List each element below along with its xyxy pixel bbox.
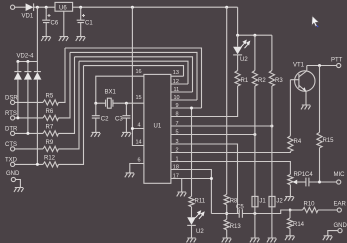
- svg-text:U6: U6: [59, 5, 67, 11]
- diode VD1: [26, 3, 34, 11]
- node junction: [270, 125, 273, 128]
- ground: [121, 132, 131, 136]
- ground: [41, 37, 51, 41]
- node junction: [318, 181, 321, 184]
- wire J1 sleeve to ground: [254, 207, 256, 238]
- node junction: [225, 6, 228, 9]
- wire: [237, 55, 239, 71]
- svg-text:14: 14: [136, 139, 142, 145]
- wire: [191, 207, 193, 218]
- ground: [250, 238, 260, 242]
- wire: [15, 101, 43, 103]
- svg-text:U2: U2: [196, 229, 204, 235]
- svg-text:4: 4: [138, 122, 141, 128]
- wire: [15, 148, 43, 150]
- node junction: [125, 102, 128, 105]
- resistor R3: [271, 35, 273, 70]
- wire: [15, 6, 26, 8]
- wire: [16, 180, 21, 188]
- svg-text:GND: GND: [6, 171, 20, 177]
- wire VCC column to pins 4 and 14: [132, 7, 144, 145]
- svg-text:VD1: VD1: [22, 14, 34, 20]
- wire pin 2 to R4 bottom: [171, 151, 291, 152]
- ground: [177, 192, 187, 196]
- ground: [59, 37, 69, 41]
- wire PTT to R15: [319, 66, 321, 133]
- wire R2 to J1: [254, 86, 256, 196]
- svg-text:PTT: PTT: [331, 57, 343, 63]
- ground: [301, 105, 311, 109]
- svg-text:6: 6: [138, 157, 141, 163]
- ground: [76, 37, 86, 41]
- svg-text:R12: R12: [44, 155, 56, 161]
- ground: [267, 238, 277, 242]
- wire bus line 1: [65, 48, 202, 108]
- svg-text:C2: C2: [101, 116, 109, 122]
- svg-text:BX1: BX1: [105, 90, 117, 96]
- ground: [323, 236, 333, 240]
- svg-text:U2: U2: [240, 57, 248, 63]
- svg-text:R5: R5: [46, 93, 54, 99]
- node junction: [36, 6, 39, 9]
- svg-text:R6: R6: [46, 109, 54, 115]
- svg-text:R13: R13: [230, 224, 242, 230]
- svg-text:R11: R11: [195, 198, 206, 204]
- svg-text:C3: C3: [115, 116, 123, 122]
- wire J2 sleeve to ground: [271, 207, 273, 238]
- wire bus line 5: [84, 66, 184, 77]
- wire VD4 to TXD: [36, 80, 38, 165]
- svg-text:J1: J1: [259, 198, 266, 204]
- wire pin 12 stub: [171, 83, 188, 85]
- wire R3 to J2: [271, 86, 273, 196]
- svg-text:R14: R14: [293, 222, 305, 228]
- wire R11 column from pin10: [191, 108, 193, 196]
- ground: [91, 132, 101, 136]
- wire GND to ground: [328, 231, 338, 236]
- wire pin 5 to J1 column: [171, 134, 255, 136]
- wire VD2 to RTS: [17, 80, 19, 118]
- wire VCC rail drop to LED branch: [237, 7, 239, 35]
- node junction: [26, 60, 29, 63]
- LED U2 receive: [187, 217, 196, 225]
- svg-text:13: 13: [173, 70, 179, 76]
- svg-text:R3: R3: [275, 78, 283, 84]
- wire DSR row to bus: [59, 48, 66, 102]
- node junction: [79, 6, 82, 9]
- svg-text:R9: R9: [46, 140, 54, 146]
- diode VD2: [14, 62, 21, 72]
- node junction: [225, 212, 228, 215]
- resistor R2: [254, 35, 256, 70]
- node junction: [16, 60, 19, 63]
- wire pin16 net: [96, 76, 144, 103]
- wire pin 13 stub: [171, 75, 184, 77]
- node junction R10 R14: [289, 209, 292, 212]
- wire pin 8 to R1: [171, 86, 238, 117]
- wire bus line 2: [70, 52, 197, 100]
- capacitor C3: [122, 103, 130, 132]
- wire R15 to mic row: [319, 148, 321, 182]
- wire bus line 3: [75, 57, 193, 92]
- svg-text:R2: R2: [258, 78, 266, 84]
- capacitor C1: [77, 7, 85, 36]
- diode VD4: [34, 62, 41, 72]
- wire pin 9 stub: [171, 107, 202, 109]
- wire R10 to EAR: [318, 209, 337, 211]
- svg-text:R7: R7: [46, 124, 54, 130]
- node junction: [36, 163, 39, 166]
- svg-text:C1: C1: [85, 21, 93, 27]
- svg-text:GND: GND: [334, 223, 347, 229]
- wire bus line 4: [79, 61, 188, 84]
- node junction: [253, 34, 256, 37]
- wire RP1 to ground: [289, 185, 291, 197]
- svg-text:C5: C5: [236, 205, 244, 211]
- node junction: [131, 127, 134, 130]
- svg-text:C6: C6: [51, 21, 59, 27]
- wire pin 17 ground stub: [181, 179, 183, 193]
- ground: [284, 197, 294, 201]
- svg-text:MIC: MIC: [334, 172, 346, 178]
- svg-text:RP1: RP1: [294, 172, 306, 178]
- svg-text:VT1: VT1: [293, 62, 305, 68]
- node junction: [318, 64, 321, 67]
- wire: [15, 132, 43, 134]
- ground: [14, 188, 24, 192]
- svg-text:C4: C4: [305, 172, 313, 178]
- svg-text:VD2-4: VD2-4: [17, 54, 35, 60]
- wire pin 3 to C5 row: [171, 144, 238, 214]
- wire pin 7 to J2 column: [171, 125, 272, 127]
- ground: [125, 173, 135, 177]
- node VCC input terminal: [11, 5, 15, 9]
- svg-text:R15: R15: [323, 138, 335, 144]
- wire: [226, 230, 228, 238]
- node junction: [16, 116, 19, 119]
- wire: [15, 117, 43, 119]
- wire pin 18: [171, 170, 212, 214]
- wire LED branch row: [238, 34, 272, 36]
- wire: [34, 6, 55, 8]
- node junction: [210, 177, 213, 180]
- svg-text:R4: R4: [294, 139, 302, 145]
- node junction: [236, 34, 239, 37]
- node junction: [94, 102, 97, 105]
- svg-text:R1: R1: [241, 78, 249, 84]
- wire: [237, 35, 239, 47]
- wire DTR row to bus: [59, 57, 75, 134]
- svg-text:U1: U1: [154, 124, 162, 130]
- node junction: [253, 212, 256, 215]
- wire RTS row to bus: [59, 52, 71, 118]
- wire pin 17: [171, 178, 212, 180]
- wire R4 column base: [289, 80, 291, 136]
- node junction: [253, 133, 256, 136]
- svg-text:R8: R8: [230, 198, 238, 204]
- regulator U6: [55, 2, 73, 11]
- LED U2 transmit: [233, 47, 242, 55]
- wire R14 to ground: [289, 229, 291, 236]
- diode VD3: [24, 62, 31, 72]
- wire pin 11 stub: [171, 91, 193, 93]
- node junction: [45, 6, 48, 9]
- wire diode anode bar: [18, 61, 38, 63]
- ground: [222, 238, 232, 242]
- wire pin 1 to RP1: [171, 162, 291, 175]
- wire: [15, 163, 43, 165]
- node junction: [190, 107, 193, 110]
- svg-text:15: 15: [136, 95, 142, 101]
- wire TXD row to bus: [59, 66, 84, 165]
- svg-text:EAR: EAR: [334, 201, 347, 207]
- wire CTS row to bus: [59, 61, 80, 149]
- wire: [191, 225, 193, 238]
- wire VD1 node down to diode bus: [36, 7, 38, 61]
- wire VCC long drop to R8: [226, 7, 228, 194]
- ground: [285, 236, 295, 240]
- capacitor C6: [42, 7, 50, 36]
- ground: [187, 238, 197, 242]
- mouse cursor: [312, 16, 319, 27]
- jack J2: [269, 196, 275, 206]
- wire U6 to ground: [63, 11, 65, 36]
- wire: [73, 6, 238, 8]
- node junction: [131, 6, 134, 9]
- capacitor C2: [92, 103, 100, 132]
- wire pin 10 stub: [171, 99, 197, 101]
- wire: [226, 205, 228, 220]
- svg-text:16: 16: [136, 69, 142, 75]
- svg-text:J2: J2: [276, 198, 283, 204]
- IC U1: [144, 74, 171, 183]
- wire PTT row: [307, 65, 337, 67]
- jack J1: [252, 196, 258, 206]
- wire VD3 to DTR: [27, 80, 29, 134]
- node junction: [26, 132, 29, 135]
- wire C4 to MIC: [309, 181, 337, 183]
- wire C5 row: [211, 210, 288, 214]
